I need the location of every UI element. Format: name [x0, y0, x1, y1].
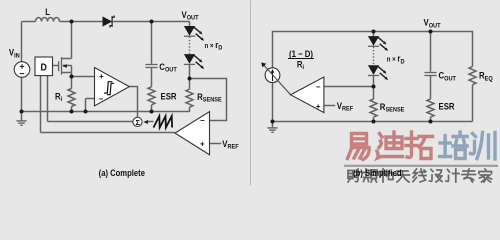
svg-text:−: −	[200, 116, 205, 125]
svg-text:+: +	[99, 72, 104, 81]
svg-text:−: −	[99, 94, 104, 103]
svg-text:L: L	[45, 6, 50, 17]
svg-text:ESR: ESR	[161, 91, 177, 102]
svg-text:ESR: ESR	[439, 101, 455, 112]
svg-text:(a) Complete: (a) Complete	[99, 167, 146, 178]
svg-text:(1 − D): (1 − D)	[289, 48, 313, 59]
svg-text:Σ: Σ	[135, 118, 140, 127]
svg-text:+: +	[200, 140, 205, 149]
svg-text:(b) Simplified: (b) Simplified	[353, 167, 401, 178]
svg-text:+: +	[316, 102, 321, 111]
svg-text:D: D	[41, 62, 47, 74]
svg-text:−: −	[316, 82, 321, 91]
